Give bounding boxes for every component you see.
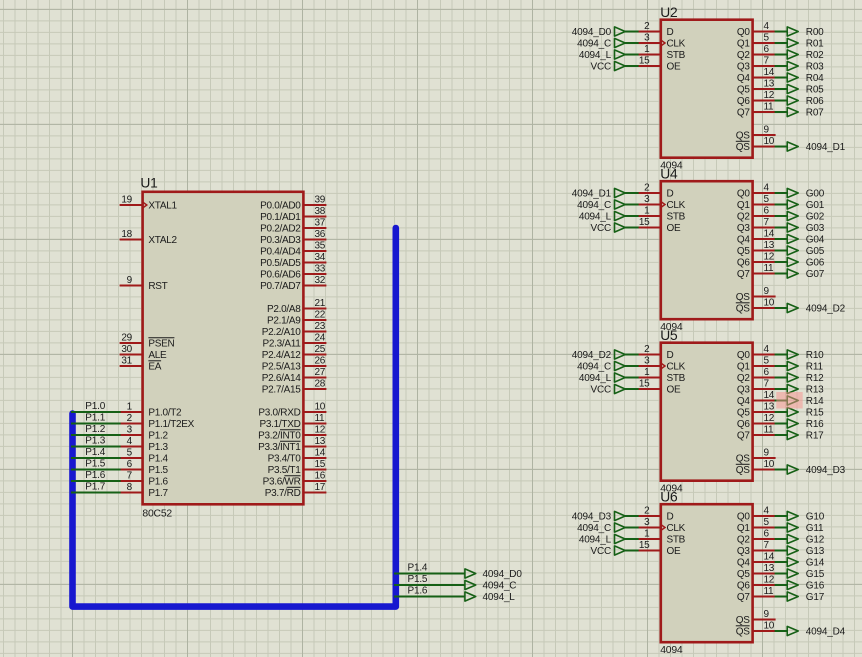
svg-text:P3.6/WR: P3.6/WR — [263, 477, 301, 488]
U6 pin 10 (QS-bar) — [736, 621, 776, 638]
svg-text:9: 9 — [764, 286, 770, 297]
U1 pin 22 (P2.1/A9) — [267, 310, 326, 327]
U6 pin 13 (Q5) — [737, 563, 776, 580]
wire U6.Q4 to terminal G14 — [775, 561, 788, 563]
svg-text:13: 13 — [315, 436, 326, 447]
wire U2.Q5 to terminal R05 — [775, 88, 788, 90]
svg-text:4: 4 — [764, 344, 770, 355]
svg-text:D: D — [667, 350, 674, 361]
svg-text:R06: R06 — [806, 96, 824, 107]
svg-text:4094_D1: 4094_D1 — [806, 142, 846, 153]
svg-text:P0.5/AD5: P0.5/AD5 — [260, 258, 301, 269]
terminal 4094_D2 (U5 D input) — [572, 350, 625, 361]
svg-text:7: 7 — [764, 540, 770, 551]
U1 pin 30 (ALE) — [120, 344, 167, 361]
svg-text:11: 11 — [764, 102, 775, 113]
svg-text:R05: R05 — [806, 85, 824, 96]
wire U6.Q3 to terminal G13 — [775, 550, 788, 552]
svg-text:PSEN: PSEN — [148, 339, 174, 350]
svg-text:4: 4 — [764, 183, 770, 194]
U1 pin 5 (P1.4) — [120, 448, 169, 465]
svg-text:14: 14 — [764, 390, 775, 401]
wire U4.Q6 to terminal G06 — [775, 261, 788, 263]
svg-text:EA: EA — [148, 362, 161, 373]
svg-text:4: 4 — [764, 506, 770, 517]
svg-text:15: 15 — [639, 217, 650, 228]
U6 pin 11 (Q7) — [737, 586, 776, 603]
svg-text:P0.1/AD1: P0.1/AD1 — [260, 212, 301, 223]
wire U6.QS-bar to terminal 4094_D4 — [775, 630, 788, 632]
svg-text:Q5: Q5 — [737, 246, 750, 257]
svg-text:1: 1 — [644, 367, 650, 378]
svg-text:G13: G13 — [806, 546, 825, 557]
U5 pin 3 (CLK) — [638, 356, 686, 373]
svg-text:P1.5: P1.5 — [148, 465, 168, 476]
terminal 4094_D1 (U4 D input) — [572, 188, 625, 199]
svg-text:U1: U1 — [140, 175, 157, 190]
terminal R10 (U5 Q0 output) — [787, 350, 824, 361]
U4 pin 2 (D) — [638, 183, 674, 200]
svg-text:R10: R10 — [806, 350, 824, 361]
svg-text:G04: G04 — [806, 235, 825, 246]
svg-text:13: 13 — [764, 240, 775, 251]
svg-text:4094_D3: 4094_D3 — [572, 512, 612, 523]
U1 pin 39 (P0.0/AD0) — [260, 195, 326, 212]
wire U6.Q5 to terminal G15 — [775, 573, 788, 575]
svg-text:R03: R03 — [806, 62, 824, 73]
svg-text:2: 2 — [644, 344, 650, 355]
wire 4094_D3 to U6.D — [625, 515, 639, 517]
svg-text:28: 28 — [315, 379, 326, 390]
svg-text:1: 1 — [644, 44, 650, 55]
svg-text:14: 14 — [764, 552, 775, 563]
svg-text:Q3: Q3 — [737, 62, 750, 73]
svg-text:4094: 4094 — [660, 645, 683, 656]
svg-text:13: 13 — [764, 563, 775, 574]
svg-text:Q3: Q3 — [737, 223, 750, 234]
terminal R15 (U5 Q5 output) — [787, 407, 824, 418]
svg-text:STB: STB — [667, 535, 686, 546]
wire P1.4 (bus to terminal 4094_D0) — [394, 573, 465, 575]
svg-text:D: D — [667, 189, 674, 200]
U2 pin 1 (STB) — [638, 44, 686, 61]
U6 pin 7 (Q3) — [737, 540, 776, 557]
terminal R00 (U2 Q0 output) — [787, 27, 824, 38]
wire P1.6 (bus to terminal 4094_L) — [394, 596, 465, 598]
svg-text:R15: R15 — [806, 408, 824, 419]
svg-text:5: 5 — [764, 194, 770, 205]
svg-text:P2.2/A10: P2.2/A10 — [262, 327, 301, 338]
svg-text:CLK: CLK — [667, 39, 686, 50]
svg-text:Q7: Q7 — [737, 431, 750, 442]
terminal VCC (U2 OE input) — [590, 61, 625, 72]
U1 pin 7 (P1.6) — [120, 471, 169, 488]
U2 pin 5 (Q1) — [737, 33, 776, 50]
svg-text:1: 1 — [644, 206, 650, 217]
wire U6.Q6 to terminal G16 — [775, 584, 788, 586]
svg-text:P1.6: P1.6 — [85, 470, 105, 481]
terminal G16 (U6 Q6 output) — [787, 580, 825, 591]
wire VCC to U4.OE — [625, 227, 639, 229]
wire U2.QS-bar to terminal 4094_D1 — [775, 146, 788, 148]
wire 4094_D0 to U2.D — [625, 31, 639, 33]
terminal 4094_D3 (U6 D input) — [572, 511, 625, 522]
svg-text:QS: QS — [736, 304, 750, 315]
wire U5.Q7 to terminal R17 — [775, 434, 788, 436]
U4 pin 15 (OE) — [638, 217, 681, 234]
U1 pin 9 (RST) — [120, 275, 168, 292]
svg-text:11: 11 — [764, 586, 775, 597]
svg-text:P1.5: P1.5 — [408, 574, 428, 585]
svg-text:Q4: Q4 — [737, 558, 750, 569]
svg-text:G17: G17 — [806, 592, 825, 603]
svg-text:11: 11 — [764, 263, 775, 274]
U1 pin 34 (P0.5/AD5) — [260, 252, 326, 269]
svg-text:Q3: Q3 — [737, 546, 750, 557]
svg-text:13: 13 — [764, 402, 775, 413]
U1 pin 27 (P2.6/A14) — [262, 367, 327, 384]
terminal 4094_L — [465, 592, 515, 603]
svg-text:7: 7 — [127, 471, 133, 482]
svg-text:G02: G02 — [806, 212, 825, 223]
svg-text:G00: G00 — [806, 189, 825, 200]
terminal G07 (U4 Q7 output) — [787, 269, 825, 280]
svg-text:4094_D0: 4094_D0 — [483, 569, 523, 580]
svg-text:4: 4 — [127, 436, 133, 447]
svg-text:Q5: Q5 — [737, 569, 750, 580]
svg-text:P0.2/AD2: P0.2/AD2 — [260, 224, 301, 235]
svg-text:33: 33 — [315, 264, 326, 275]
wire P1.3 (bus to U1 pin 4) — [71, 446, 121, 448]
svg-text:U4: U4 — [660, 166, 678, 181]
U1 pin 11 (P3.1/TXD) — [260, 413, 327, 430]
svg-text:2: 2 — [644, 506, 650, 517]
svg-text:4094_C: 4094_C — [577, 362, 611, 373]
terminal 4094_D0 (U2 D input) — [572, 27, 625, 38]
U4 pin 1 (STB) — [638, 206, 686, 223]
svg-text:CLK: CLK — [667, 523, 686, 534]
svg-text:12: 12 — [764, 575, 775, 586]
svg-text:STB: STB — [667, 50, 686, 61]
IC U1 body (80C52 microcontroller) — [140, 175, 303, 519]
svg-text:6: 6 — [764, 367, 770, 378]
U1 pin 23 (P2.2/A10) — [262, 321, 327, 338]
svg-text:7: 7 — [764, 56, 770, 67]
wire U4.Q7 to terminal G07 — [775, 273, 788, 275]
wire U5.Q6 to terminal R16 — [775, 423, 788, 425]
wire U2.Q2 to terminal R02 — [775, 54, 788, 56]
U5 pin 9 (QS, unconnected) — [736, 448, 776, 465]
terminal R01 (U2 Q1 output) — [787, 38, 824, 49]
U1 pin 16 (P3.6/WR) — [263, 471, 327, 488]
svg-text:R12: R12 — [806, 373, 824, 384]
wire P1.2 (bus to U1 pin 3) — [71, 434, 121, 436]
U6 pin 1 (STB) — [638, 529, 686, 546]
svg-text:P2.3/A11: P2.3/A11 — [262, 339, 301, 350]
svg-text:R04: R04 — [806, 73, 824, 84]
svg-text:G16: G16 — [806, 581, 825, 592]
terminal 4094_C (U6 CLK input) — [577, 523, 625, 534]
svg-text:STB: STB — [667, 212, 686, 223]
svg-text:36: 36 — [315, 229, 326, 240]
svg-text:STB: STB — [667, 373, 686, 384]
svg-text:12: 12 — [764, 252, 775, 263]
svg-text:P2.6/A14: P2.6/A14 — [262, 373, 301, 384]
wire U2.Q3 to terminal R03 — [775, 65, 788, 67]
U5 pin 10 (QS-bar) — [736, 459, 776, 476]
svg-text:P2.4/A12: P2.4/A12 — [262, 350, 301, 361]
U1 pin 8 (P1.7) — [120, 482, 169, 499]
U1 pin 17 (P3.7/RD) — [265, 482, 327, 499]
U2 pin 7 (Q3) — [737, 56, 776, 73]
U6 pin 2 (D) — [638, 506, 674, 523]
svg-text:R14: R14 — [806, 396, 824, 407]
svg-text:4094_L: 4094_L — [579, 212, 612, 223]
svg-text:26: 26 — [315, 356, 326, 367]
svg-text:Q0: Q0 — [737, 512, 750, 523]
wire P1.4 (bus to U1 pin 5) — [71, 457, 121, 459]
svg-text:P1.4: P1.4 — [408, 563, 428, 574]
svg-text:VCC: VCC — [590, 62, 611, 73]
wire U4.Q5 to terminal G05 — [775, 250, 788, 252]
wire U2.Q0 to terminal R00 — [775, 31, 788, 33]
svg-text:Q3: Q3 — [737, 385, 750, 396]
svg-text:15: 15 — [315, 459, 326, 470]
svg-text:8: 8 — [127, 482, 133, 493]
svg-text:P0.4/AD4: P0.4/AD4 — [260, 247, 301, 258]
svg-text:Q0: Q0 — [737, 350, 750, 361]
svg-text:OE: OE — [667, 385, 681, 396]
U2 pin 14 (Q4) — [737, 67, 776, 84]
svg-text:25: 25 — [315, 344, 326, 355]
U2 pin 4 (Q0) — [737, 21, 776, 38]
svg-text:XTAL1: XTAL1 — [148, 201, 177, 212]
terminal G15 (U6 Q5 output) — [787, 569, 825, 580]
U6 pin 5 (Q1) — [737, 517, 776, 534]
U5 pin 2 (D) — [638, 344, 674, 361]
wire U6.Q0 to terminal G10 — [775, 515, 788, 517]
svg-text:G07: G07 — [806, 269, 825, 280]
svg-text:P3.4/T0: P3.4/T0 — [268, 454, 302, 465]
svg-text:CLK: CLK — [667, 362, 686, 373]
svg-text:Q7: Q7 — [737, 592, 750, 603]
svg-text:4094_D1: 4094_D1 — [572, 189, 612, 200]
U1 pin 15 (P3.5/T1) — [268, 459, 327, 476]
U6 pin 3 (CLK) — [638, 517, 686, 534]
svg-text:2: 2 — [127, 413, 133, 424]
svg-text:4094_L: 4094_L — [579, 535, 612, 546]
svg-text:15: 15 — [639, 379, 650, 390]
svg-text:U5: U5 — [660, 328, 678, 343]
U1 pin 3 (P1.2) — [120, 425, 169, 442]
svg-text:22: 22 — [315, 310, 326, 321]
U4 pin 5 (Q1) — [737, 194, 776, 211]
U6 pin 9 (QS, unconnected) — [736, 609, 776, 626]
U1 pin 32 (P0.7/AD7) — [260, 275, 326, 292]
svg-text:Q2: Q2 — [737, 212, 750, 223]
svg-text:29: 29 — [121, 333, 132, 344]
svg-text:Q5: Q5 — [737, 408, 750, 419]
wire U4.Q0 to terminal G00 — [775, 192, 788, 194]
U4 pin 4 (Q0) — [737, 183, 776, 200]
wire 4094_L to U5.STB — [625, 377, 639, 379]
svg-text:CLK: CLK — [667, 200, 686, 211]
svg-text:OE: OE — [667, 223, 681, 234]
svg-text:11: 11 — [315, 413, 326, 424]
svg-text:P2.5/A13: P2.5/A13 — [262, 362, 301, 373]
svg-text:Q2: Q2 — [737, 535, 750, 546]
svg-text:21: 21 — [315, 298, 326, 309]
svg-text:10: 10 — [764, 621, 775, 632]
U4 pin 7 (Q3) — [737, 217, 776, 234]
U2 pin 13 (Q5) — [737, 79, 776, 96]
terminal R13 (U5 Q3 output) — [787, 384, 824, 395]
svg-text:Q6: Q6 — [737, 96, 750, 107]
wire 4094_C to U4.CLK — [625, 204, 639, 206]
U1 pin 14 (P3.4/T0) — [268, 448, 327, 465]
U1 pin 38 (P0.1/AD1) — [260, 206, 326, 223]
svg-text:G15: G15 — [806, 569, 825, 580]
terminal R05 (U2 Q5 output) — [787, 84, 824, 95]
wire U4.Q3 to terminal G03 — [775, 227, 788, 229]
svg-text:G14: G14 — [806, 558, 825, 569]
wire U4.Q1 to terminal G01 — [775, 204, 788, 206]
U1 pin 28 (P2.7/A15) — [262, 379, 327, 396]
svg-text:23: 23 — [315, 321, 326, 332]
terminal G05 (U4 Q5 output) — [787, 246, 825, 257]
svg-text:15: 15 — [639, 540, 650, 551]
svg-text:10: 10 — [764, 298, 775, 309]
svg-text:P3.3/INT1: P3.3/INT1 — [258, 442, 301, 453]
wire U5.Q4 to terminal R14 — [775, 400, 788, 402]
U4 pin 13 (Q5) — [737, 240, 776, 257]
svg-text:P1.1/T2EX: P1.1/T2EX — [148, 419, 194, 430]
wire 4094_D1 to U4.D — [625, 192, 639, 194]
svg-text:4094_D4: 4094_D4 — [806, 627, 846, 638]
svg-text:16: 16 — [315, 471, 326, 482]
svg-text:4094_C: 4094_C — [577, 200, 611, 211]
U5 pin 15 (OE) — [638, 379, 681, 396]
U1 pin 37 (P0.2/AD2) — [260, 218, 326, 235]
svg-text:35: 35 — [315, 241, 326, 252]
svg-text:P1.0: P1.0 — [85, 401, 105, 412]
svg-text:4094_C: 4094_C — [483, 581, 517, 592]
svg-text:12: 12 — [764, 90, 775, 101]
svg-text:12: 12 — [764, 413, 775, 424]
U2 pin 9 (QS, unconnected) — [736, 125, 776, 142]
terminal 4094_D2 (U4 serial output) — [787, 303, 845, 314]
wire U4.QS-bar to terminal 4094_D2 — [775, 307, 788, 309]
svg-text:Q1: Q1 — [737, 523, 750, 534]
svg-text:R16: R16 — [806, 419, 824, 430]
svg-text:Q6: Q6 — [737, 419, 750, 430]
U1 pin 4 (P1.3) — [120, 436, 169, 453]
terminal G14 (U6 Q4 output) — [787, 557, 825, 568]
terminal G12 (U6 Q2 output) — [787, 534, 825, 545]
svg-text:QS: QS — [736, 615, 750, 626]
wire U4.Q4 to terminal G04 — [775, 238, 788, 240]
wire U2.Q1 to terminal R01 — [775, 42, 788, 44]
svg-text:12: 12 — [315, 425, 326, 436]
U1 pin 13 (P3.3/INT1) — [258, 436, 326, 453]
terminal R02 (U2 Q2 output) — [787, 50, 824, 61]
svg-text:P3.1/TXD: P3.1/TXD — [260, 419, 301, 430]
U4 pin 3 (CLK) — [638, 194, 686, 211]
terminal R11 (U5 Q1 output) — [787, 361, 823, 372]
terminal R12 (U5 Q2 output) — [787, 373, 824, 384]
wire P1.0 (bus to U1 pin 1) — [71, 411, 121, 413]
U2 pin 12 (Q6) — [737, 90, 776, 107]
wire U2.Q4 to terminal R04 — [775, 77, 788, 79]
terminal 4094_L (U6 STB input) — [579, 534, 625, 545]
svg-text:32: 32 — [315, 275, 326, 286]
U6 pin 14 (Q4) — [737, 552, 776, 569]
svg-text:6: 6 — [764, 529, 770, 540]
U5 pin 11 (Q7) — [737, 425, 776, 442]
svg-text:31: 31 — [121, 356, 132, 367]
svg-text:R13: R13 — [806, 385, 824, 396]
svg-text:P1.2: P1.2 — [85, 424, 105, 435]
U1 pin 21 (P2.0/A8) — [267, 298, 326, 315]
svg-text:R11: R11 — [806, 362, 824, 373]
terminal 4094_D0 — [465, 569, 522, 580]
terminal R17 (U5 Q7 output) — [787, 430, 824, 441]
U4 pin 12 (Q6) — [737, 252, 776, 269]
svg-text:P3.2/INT0: P3.2/INT0 — [258, 431, 301, 442]
svg-text:3: 3 — [127, 425, 133, 436]
terminal G03 (U4 Q3 output) — [787, 223, 825, 234]
svg-text:QS: QS — [736, 454, 750, 465]
svg-text:5: 5 — [764, 356, 770, 367]
svg-text:Q0: Q0 — [737, 27, 750, 38]
svg-text:9: 9 — [764, 125, 770, 136]
svg-text:2: 2 — [644, 21, 650, 32]
svg-text:13: 13 — [764, 79, 775, 90]
svg-text:P0.0/AD0: P0.0/AD0 — [260, 201, 301, 212]
U2 pin 10 (QS-bar) — [736, 136, 776, 153]
svg-text:P1.3: P1.3 — [85, 436, 105, 447]
svg-text:P3.7/RD: P3.7/RD — [265, 488, 301, 499]
svg-text:18: 18 — [121, 229, 132, 240]
U2 pin 15 (OE) — [638, 56, 681, 73]
svg-text:11: 11 — [764, 425, 775, 436]
U1 pin 2 (P1.1/T2EX) — [120, 413, 195, 430]
svg-text:RST: RST — [148, 281, 167, 292]
U1 pin 26 (P2.5/A13) — [262, 356, 327, 373]
terminal 4094_D3 (U5 serial output) — [787, 465, 845, 476]
IC U6 body (4094 shift register) — [660, 489, 752, 656]
terminal R06 (U2 Q6 output) — [787, 96, 824, 107]
svg-text:QS: QS — [736, 465, 750, 476]
svg-text:6: 6 — [764, 44, 770, 55]
terminal G10 (U6 Q0 output) — [787, 511, 825, 522]
wire 4094_D2 to U5.D — [625, 354, 639, 356]
svg-text:D: D — [667, 27, 674, 38]
bus wire P1 (thick blue) — [73, 228, 396, 607]
svg-text:Q2: Q2 — [737, 373, 750, 384]
svg-text:U2: U2 — [660, 5, 677, 20]
U5 pin 7 (Q3) — [737, 379, 776, 396]
svg-text:9: 9 — [764, 609, 770, 620]
U1 pin 33 (P0.6/AD6) — [260, 264, 326, 281]
svg-text:17: 17 — [315, 482, 326, 493]
svg-text:Q1: Q1 — [737, 362, 750, 373]
svg-text:XTAL2: XTAL2 — [148, 235, 177, 246]
wire P1.6 (bus to U1 pin 7) — [71, 480, 121, 482]
svg-text:R07: R07 — [806, 108, 824, 119]
svg-text:P1.2: P1.2 — [148, 431, 168, 442]
U5 pin 4 (Q0) — [737, 344, 776, 361]
